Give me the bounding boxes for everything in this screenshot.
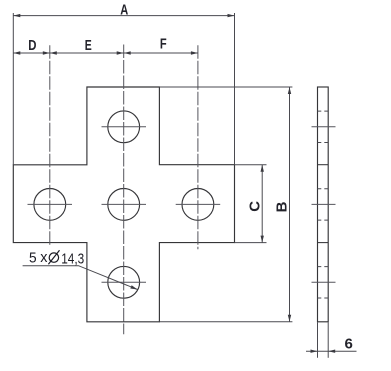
side view plate strip <box>318 87 329 322</box>
hole H2 middle-left (circle) <box>34 189 66 221</box>
vertical centerline column 1 (x=49.8) <box>49 45 51 245</box>
extension line upper shoulder to C (y=164.7) <box>235 164 267 166</box>
extension line top edge to B (y=87) <box>159 86 292 88</box>
dimension 6 line with outside arrows <box>306 350 357 353</box>
side view hidden line middle row bottom edge <box>318 219 329 221</box>
leader line to hole H5 with arrowhead <box>23 266 138 290</box>
side view hidden line hole H1 top edge <box>318 110 329 112</box>
svg-text:D: D <box>28 37 36 54</box>
side view shoulder edge upper (y=164.7) <box>318 164 329 166</box>
extension line lower shoulder to C (y=242.6) <box>235 242 267 244</box>
svg-text:5: 5 <box>29 250 37 267</box>
side view hidden line middle row top edge <box>318 188 329 190</box>
horizontal centerline of hole H2 <box>28 203 73 205</box>
extension line left edge (for dims A and D) <box>12 13 14 165</box>
side view shoulder edge lower (y=242.6) <box>318 242 329 244</box>
plate outline (cross-shaped plate, front view) <box>13 87 234 322</box>
svg-text:x: x <box>40 249 48 266</box>
horizontal centerline of hole H4 <box>176 203 221 205</box>
hole H5 bottom (circle) <box>108 266 140 298</box>
horizontal centerline of hole H5 <box>102 281 147 283</box>
svg-text:6: 6 <box>345 335 353 352</box>
horizontal centerline of hole H3 <box>102 203 147 205</box>
dimension B line with arrows <box>288 87 291 322</box>
side view hidden line hole H1 bottom edge <box>318 142 329 144</box>
side view hidden line hole H5 top edge <box>318 266 329 268</box>
svg-text:F: F <box>160 36 167 53</box>
horizontal centerline of hole H1 <box>102 126 147 128</box>
extension lines for thickness dim 6 <box>318 322 329 357</box>
extension line right edge (for dim A) <box>234 13 236 165</box>
svg-text:E: E <box>85 37 92 54</box>
svg-text:A: A <box>120 1 128 18</box>
svg-text:C: C <box>247 201 264 212</box>
side view hidden line hole H5 bottom edge <box>318 297 329 299</box>
extension line bottom edge to B (y=321.8) <box>159 321 292 323</box>
side view centerline tick row 3 <box>312 281 336 283</box>
hole H4 middle-right (circle) <box>182 189 214 221</box>
dimension E line with arrows <box>50 51 124 54</box>
svg-text:B: B <box>274 201 291 212</box>
vertical centerline column 3 (x=197.9) <box>197 45 199 249</box>
side view centerline tick row 2 <box>312 203 336 205</box>
dimension F line with arrows <box>124 51 198 54</box>
dimension D line with arrows <box>13 51 50 54</box>
hole H1 top (circle) <box>108 111 140 143</box>
side view centerline tick row 1 <box>312 126 336 128</box>
svg-text:14,3: 14,3 <box>61 251 84 268</box>
diameter symbol <box>48 250 59 264</box>
vertical centerline column 2 main axis (x=123.7) <box>123 45 125 335</box>
dimension C line with arrows <box>261 165 264 243</box>
dimension A line <box>13 14 234 17</box>
hole H3 middle-center (circle) <box>108 189 140 221</box>
